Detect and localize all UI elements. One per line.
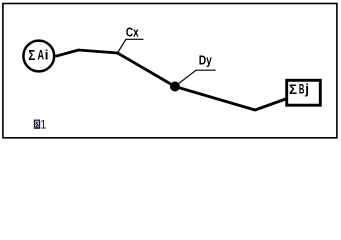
svg-text:i: i bbox=[45, 47, 49, 63]
border frame bbox=[3, 4, 337, 138]
svg-text:Cx: Cx bbox=[126, 25, 139, 39]
svg-text:Σ: Σ bbox=[289, 81, 297, 97]
svg-text:Dy: Dy bbox=[199, 53, 212, 67]
caption 图1 (figure 1): hand-drawn 图 glyph bbox=[35, 120, 40, 128]
wire: polyline from node A through Cx vertex, Dy junction, to node B bbox=[56, 50, 286, 110]
junction dot (node pointed by Dy) bbox=[170, 82, 180, 92]
leader line for label Cx bbox=[118, 39, 144, 52]
svg-text:Σ: Σ bbox=[28, 47, 35, 64]
svg-text:B: B bbox=[299, 82, 305, 97]
leader line for label Dy bbox=[179, 70, 216, 83]
node A: circle ∑Ai bbox=[23, 41, 54, 72]
svg-text:1: 1 bbox=[40, 119, 46, 131]
node B: box ∑Bj bbox=[287, 80, 321, 105]
svg-text:A: A bbox=[38, 47, 45, 63]
svg-text:j: j bbox=[304, 82, 309, 97]
